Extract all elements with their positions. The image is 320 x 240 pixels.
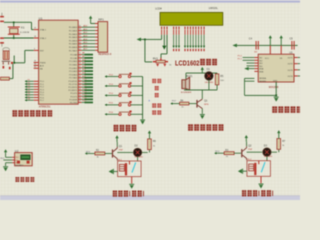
microcontroller U1 AT89C51 body [39,20,79,104]
pin P2.0/A8 net label [70,52,93,57]
svg-text:RP1: RP1 [98,17,104,21]
pin P2.4/A12 net label [69,65,93,70]
power arrow U3 VS [280,35,283,45]
pin U3 IN3 [247,63,264,65]
pin U3 VS stub [280,45,282,54]
button SW4 net P3.5 [105,101,143,106]
LED D2 [133,148,141,156]
label LED-RED D2 [135,156,144,158]
wire collector Q3 [201,90,203,99]
pin P2.1/A9 net label [70,55,93,60]
pin P3.1/TXD net label [69,82,93,86]
label Q2 [248,145,253,152]
pin P0.4/AD4 wire to RP1 [69,38,98,43]
transistor Q1 [112,147,117,161]
capacitor C3 [3,48,10,60]
svg-text:P0.7/AD7: P0.7/AD7 [69,49,78,52]
motor driver U3 body [258,54,294,82]
label U2 [15,149,19,153]
potentiometer RV1 [153,58,168,63]
relay RL2 switch [261,162,265,172]
relay RL2 pin top [258,161,260,165]
label DS18B20 [15,165,23,167]
pin PSEN (29) [34,61,46,65]
svg-text:NPN: NPN [204,104,209,106]
pot terminal marks [156,64,166,67]
svg-text:SENSA: SENSA [259,77,266,80]
svg-text:P3.6/WR: P3.6/WR [69,99,78,101]
label Q3 [204,100,209,106]
pin P2.6/A14 net label [69,72,93,77]
svg-text:P0.0/AD0: P0.0/AD0 [69,26,78,29]
pin P2.3/A11 net label [69,62,93,67]
wire LCD D5 down [198,35,200,51]
svg-text:LED-RED: LED-RED [205,82,214,84]
LCD pin D1 [187,27,188,35]
svg-text:XTAL1: XTAL1 [40,29,47,32]
caption temperature module [15,177,34,182]
LCD pin D7 [203,27,204,35]
pin P1.4 with net label [25,90,45,94]
pin U3 OUT1 [287,58,300,60]
pin U3 IN4 [247,66,264,68]
resistor R3 [224,152,234,155]
resistor R7 [277,139,281,150]
svg-text:P2.4/A12: P2.4/A12 [69,67,78,70]
power arrow rail left [232,44,237,48]
wire LED to R [271,149,279,152]
svg-text:1k: 1k [97,157,99,159]
wire U3 GND to ground [245,82,278,96]
wire reset to R1 [9,64,13,79]
svg-text:OUT4: OUT4 [287,76,293,78]
pin EA (31) [34,66,43,70]
pin P2.7/A15 net label [69,75,93,80]
pin P3.2/INT0 net label [68,85,93,89]
LCD pin VEE [166,27,167,35]
relay RL1 switch [132,162,136,172]
label RV1 [153,57,159,61]
svg-text:LCD#: LCD# [155,7,162,10]
wire button bus [142,77,144,120]
label D3 [264,144,268,147]
svg-text:SENSB: SENSB [259,81,266,83]
pin P3.4/T0 net label [70,91,93,95]
svg-text:MIX1508: MIX1508 [269,86,279,89]
wire U2 GND [6,163,15,166]
label AT89C51 [39,105,51,109]
svg-text:DS18B20: DS18B20 [15,165,23,167]
buzzer BUZ1 [182,73,190,90]
pin P2.2/A10 net label [69,58,93,63]
pin P1.2 with net label [25,85,45,89]
capacitor C4 [249,37,258,53]
caption independent keys [114,125,137,132]
wire LED to R [142,150,150,153]
svg-text:19: 19 [34,28,36,30]
temperature module U2 body [15,153,33,166]
LCD pin D5 [198,27,199,35]
svg-text:SOUNDER: SOUNDER [181,92,192,94]
pin U3 IN2 [238,58,264,62]
label D1 [207,68,211,71]
pin U3 OUT3 [287,70,300,72]
wire input Q1 [85,151,95,154]
capacitor C2 [0,37,4,46]
pin P1.3 with net label [25,88,45,92]
wire LCD RS down [173,35,175,51]
LCD pin VDD [164,27,165,35]
svg-text:LCD1602: LCD1602 [175,58,200,67]
wire XTAL1 net [4,22,34,29]
pin P1.1 with net label [25,82,45,86]
ground relay RL1 [129,184,134,189]
svg-text:AT89C51: AT89C51 [39,105,51,109]
label RESPACK-8 [98,53,112,56]
ground button bus [140,120,145,125]
svg-text:PSEN: PSEN [40,63,46,65]
pin RST (9) [34,48,45,52]
pin P0.2/AD2 wire to RP1 [69,31,98,36]
svg-text:31: 31 [34,66,36,68]
svg-text:ENB: ENB [259,71,264,73]
pin U3 VCC stub [269,45,271,54]
resistor R6 [148,139,152,150]
LED D3 [263,148,271,156]
wire R4 input [170,101,179,105]
LCD pin D2 [190,27,191,35]
pin XTAL1 (19) [34,28,47,32]
label R6 [153,141,157,147]
wire input Q2 [214,151,224,154]
svg-text:P0.1/AD1: P0.1/AD1 [69,30,78,33]
ground left RL2 [238,169,247,174]
label LCD1 [155,7,162,10]
svg-text:RST: RST [40,50,45,52]
node marker blue [148,99,150,103]
caption key minus [155,93,159,97]
LCD pin VSS [161,27,162,35]
pin U3 IN1 [238,56,264,60]
power arrow Q2 [245,135,248,146]
svg-text:P3.7/RD: P3.7/RD [70,102,78,104]
svg-text:P3.3/INT1: P3.3/INT1 [68,90,78,92]
reset button [2,61,13,69]
svg-text:ALE: ALE [40,64,45,67]
pin P0.3/AD3 wire to RP1 [69,35,98,40]
pin P0.1/AD1 wire to RP1 [69,28,98,33]
svg-text:Q1: Q1 [204,100,208,103]
wire U2 DQ [0,158,14,160]
label U1 [39,16,43,20]
wire R3 to base [234,152,241,154]
svg-text:P3.2/INT0: P3.2/INT0 [68,87,78,89]
LCD pin RS [173,27,174,35]
caption RL2 [242,190,273,196]
pin U3 ENA [244,67,264,71]
button SW5 net P3.6 [105,111,143,116]
LCD pin D4 [195,27,196,35]
label SOUNDER [181,92,192,94]
label LCD1602 caption [175,58,217,67]
power arrow alarm [201,67,204,73]
label R7 [282,141,286,147]
relay RL2 body [247,161,271,177]
pin U3 OUT4 [287,76,300,78]
relay RL1 pin top [129,161,131,165]
caption key set [152,79,161,83]
wire LCD D0 down [184,35,186,51]
wire collector rail Q2 [247,151,263,153]
svg-text:LED-RED: LED-RED [135,156,144,158]
wire LCD D3 down [192,35,194,51]
svg-text:P2.7/A15: P2.7/A15 [69,77,78,80]
LCD pin RW [176,27,177,35]
svg-text:1k: 1k [153,145,155,147]
svg-text:30: 30 [34,63,36,65]
label SENSA SENSB [259,77,266,83]
label D2 [135,145,139,148]
pin P0.6/AD6 wire to RP1 [69,44,98,49]
pin P0.0/AD0 wire to RP1 [69,25,98,30]
label MX1508 [269,86,279,89]
pin P0.7/AD7 wire to RP1 [69,48,98,53]
relay RL1 coil [119,163,127,175]
wire emitter Q3 [201,109,203,114]
U2 buttons [17,161,30,164]
svg-text:P0.5/AD5: P0.5/AD5 [69,43,78,46]
wire D1 down [208,80,210,90]
resistor R1 [0,77,9,80]
pin U3 ENB [254,71,264,73]
power arrow R7 [277,130,280,139]
label GND [273,81,278,83]
svg-text:P3.1/TXD: P3.1/TXD [69,84,78,86]
wire relay common [266,156,268,160]
U2 display screen [21,155,31,160]
svg-text:LM016L: LM016L [209,7,219,10]
pin U3 OUT2 [287,64,300,66]
wire crystal top stub [13,22,15,26]
caption key humidify [152,103,161,107]
pin P1.5 with net label [25,93,45,97]
transistor Q2 [241,146,246,160]
wire U2 VCC [6,156,15,158]
caption key dehumidify [152,110,161,114]
button SW3 net P3.4 [105,92,143,97]
label BUZ1 [186,75,193,78]
pin P3.3/INT1 net label [68,88,93,92]
pin P1.7 with net label [25,99,45,103]
wire motor rail [237,44,298,46]
label R2 [96,150,100,158]
wire relay bottom RL1 [131,177,133,184]
LCD pin E [178,27,179,35]
label LED-RED D1 [205,82,214,84]
wire LCD D6 down [200,35,202,51]
svg-text:P0.3/AD3: P0.3/AD3 [69,36,78,39]
svg-text:GND: GND [273,81,278,83]
power arrow R6 [148,130,151,139]
ground left RL1 [109,169,118,174]
svg-text:P2.1/A9: P2.1/A9 [70,57,78,60]
svg-text:P2.2/A10: P2.2/A10 [69,60,78,63]
label RP1 [98,17,104,21]
label R4 [180,100,184,108]
svg-text:18: 18 [34,36,36,38]
value 1k [169,64,172,66]
relay RL1 body [118,161,142,177]
pin P2.5/A13 net label [69,68,93,73]
wire crystal bottom stub [13,35,15,38]
ground U2 [3,167,8,172]
svg-text:OUT3: OUT3 [287,70,293,72]
caption alarm circuit [188,124,223,130]
wire alarm bottom rail [184,89,217,91]
svg-text:1k: 1k [282,145,284,147]
transistor Q3 [196,99,202,108]
label RL2 [247,159,252,161]
caption key add [155,86,159,90]
wire LCD D7 down [203,35,205,51]
crystal X1 [8,27,20,34]
capacitor C1 [0,13,4,22]
label LED-RED D3 [264,156,273,158]
svg-text:LED-RED: LED-RED [264,156,273,158]
svg-text:P3.4/T0: P3.4/T0 [70,93,78,95]
LCD1602 screen [160,12,223,25]
svg-text:104: 104 [254,52,257,54]
svg-text:PNP: PNP [248,149,253,151]
svg-text:P2.0/A8: P2.0/A8 [70,54,78,57]
pin P0.5/AD5 wire to RP1 [69,41,98,46]
resistor pack RP1 [98,22,108,53]
resistor R2 [95,152,105,155]
wire XTAL2 net [4,37,34,39]
svg-text:P3.0/RXD: P3.0/RXD [68,81,77,83]
power VCC for RP1 [89,16,92,23]
svg-text:BUZ1: BUZ1 [186,75,193,78]
svg-text:U1: U1 [39,16,43,20]
wire VCC to RP1 [91,22,98,23]
wire LCD E down [178,35,180,51]
wire LCD D4 down [195,35,197,51]
label LM016L [209,7,219,10]
caption RL1 [113,191,144,197]
svg-text:+: + [148,99,150,103]
label RL1 [118,159,123,161]
svg-text:1k: 1k [226,156,228,158]
pin P1.6 with net label [25,96,45,100]
svg-text:29: 29 [34,61,36,63]
node crystal bottom junction [13,37,15,39]
LCD pin D0 [184,27,185,35]
button SW1 net P3.2 [105,73,143,78]
schematic sheet background [0,0,300,200]
pin P3.6/WR net label [69,97,93,101]
wire relay bottom RL2 [260,176,262,183]
ground VDD arrow [162,35,166,50]
wire LCD D1 down [187,35,189,51]
node crystal top junction [13,22,15,24]
wire VEE to pot wiper [161,35,167,58]
svg-text:VCC: VCC [265,58,270,60]
window bottom edge [0,194,300,197]
pin ALE (30) [34,63,45,67]
svg-text:P2.5/A13: P2.5/A13 [69,70,78,73]
svg-text:P2.3/A11: P2.3/A11 [69,64,78,67]
relay RL2 coil [249,163,257,175]
LCD pin D6 [201,27,202,35]
wire LCD D2 down [189,35,191,51]
pin P3.5/T1 net label [70,94,93,98]
label Q1 [119,145,124,152]
pin P1.0 with net label [25,80,45,84]
svg-text:P2.6/A14: P2.6/A14 [69,73,78,76]
ground Q3 [200,115,205,120]
pin XTAL2 (18) [34,36,47,40]
svg-text:P3.5/T1: P3.5/T1 [70,96,78,98]
window top edge [0,0,300,2]
power arrow Q1 [115,135,118,146]
ground U3 [274,97,279,102]
U2 pin labels [15,157,20,164]
svg-text:1k: 1k [181,107,183,109]
resistor R5 [215,73,219,90]
LED D1 [205,72,214,81]
wire collector rail Q1 [117,152,133,154]
LCD pin D3 [193,27,194,35]
ground relay RL2 [259,184,264,189]
wire VSS to rail [145,35,162,40]
svg-text:RESPACK-8: RESPACK-8 [98,53,112,56]
svg-text:Q2: Q2 [248,145,252,148]
svg-text:ENA: ENA [259,68,264,71]
svg-text:P0.4/AD4: P0.4/AD4 [69,39,78,42]
wire bus to pot [145,39,152,62]
wire reset to RST corner [14,50,34,62]
svg-text:XTAL2: XTAL2 [40,37,47,40]
svg-text:U2: U2 [15,149,19,153]
wire relay common [137,157,139,161]
svg-text:PNP: PNP [119,149,124,151]
svg-text:OUT2: OUT2 [287,64,293,66]
wire R4 to base [189,103,197,105]
svg-text:9: 9 [34,48,35,50]
power arrow U3 VCC [269,35,272,45]
pin P3.7/RD net label [70,101,93,105]
label R5 [220,75,224,82]
label VCC VS [265,58,283,60]
svg-text:Q1: Q1 [119,145,123,148]
svg-text:X1: X1 [21,25,25,29]
svg-text:11.0592M: 11.0592M [20,32,30,34]
svg-text:OUT1: OUT1 [287,58,293,60]
pin P3.0/RXD net label [68,79,93,83]
label X1 [21,25,25,29]
label U3 ref [289,52,293,55]
caption MCU minimal system [12,110,52,116]
wire alarm top rail [186,72,217,74]
wire SENS to ground rail [245,78,255,95]
power arrow left of bus [137,38,146,42]
button SW2 net P3.3 [105,82,143,87]
svg-text:P0.6/AD6: P0.6/AD6 [69,46,78,49]
wire LCD RW down [175,35,177,51]
wire R2 to base [105,153,112,155]
value 11.0592MHZ [20,32,30,34]
node reset junction [13,62,15,64]
